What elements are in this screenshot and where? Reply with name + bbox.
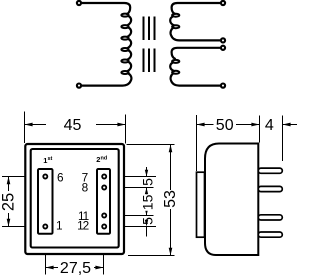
front view outer case (25, 144, 124, 254)
core (144, 17, 155, 73)
terminal sec1 bottom (221, 38, 225, 42)
side pin 8 (258, 186, 282, 191)
dimension 4 (283, 124, 298, 126)
slot 1st (38, 169, 53, 234)
svg-text:25: 25 (0, 193, 17, 211)
side pin 7 (258, 168, 282, 173)
dimension 50 (197, 124, 260, 126)
slot 2nd (97, 169, 110, 234)
secondary winding 1 (170, 3, 220, 40)
svg-text:8: 8 (82, 180, 89, 194)
svg-text:4: 4 (265, 117, 274, 134)
primary curls (121, 14, 128, 74)
wire primary top (82, 3, 130, 14)
svg-text:50: 50 (216, 117, 234, 134)
dimension 53 (170, 145, 172, 191)
terminal sec1 top (221, 1, 225, 5)
terminal sec2 bottom (221, 84, 225, 88)
side flange (197, 172, 205, 237)
pin 6 (43, 174, 47, 178)
dimension chain 5-15-5 (146, 167, 148, 237)
side body (205, 144, 258, 256)
terminal primary top (77, 1, 81, 5)
pin 8 (102, 185, 106, 189)
dimension 27,5 (46, 267, 104, 269)
dimension 25 (8, 177, 10, 227)
front view inner case (31, 149, 119, 248)
svg-text:6: 6 (57, 171, 64, 185)
front view extension lines (2, 112, 175, 275)
svg-text:12: 12 (77, 219, 89, 233)
terminal primary bottom (77, 84, 81, 88)
svg-text:5: 5 (140, 178, 156, 186)
svg-text:15: 15 (140, 194, 156, 210)
svg-text:53: 53 (162, 190, 179, 208)
svg-text:1: 1 (56, 219, 63, 233)
pin numbers (56, 171, 89, 233)
side pin 11 (258, 215, 282, 220)
pin 1 (43, 224, 47, 228)
secondary winding 2 (170, 48, 220, 86)
pin 7 (102, 174, 106, 178)
dimension 45 (25, 124, 126, 126)
pin 12 (102, 224, 106, 228)
transformer schematic: primary winding (82, 3, 131, 86)
svg-text:45: 45 (64, 117, 82, 134)
wire primary bottom (82, 73, 131, 85)
svg-text:27,5: 27,5 (60, 260, 91, 277)
pin 11 (102, 213, 106, 217)
svg-text:5: 5 (140, 217, 156, 225)
side view extension lines (197, 115, 283, 171)
terminal sec2 top (221, 46, 225, 50)
primary winding bumps (127, 16, 131, 25)
side pin 12 (258, 232, 282, 237)
